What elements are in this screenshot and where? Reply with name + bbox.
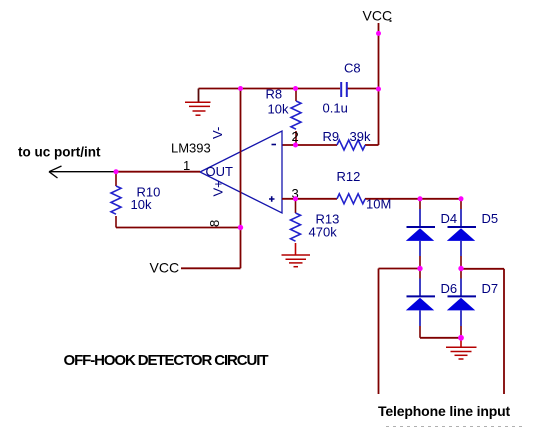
ground GND1 top-left bbox=[185, 102, 211, 115]
node mid / D5-D7 bbox=[458, 266, 463, 271]
svg-text:R9: R9 bbox=[323, 129, 340, 144]
svg-text:V-: V- bbox=[210, 127, 225, 139]
svg-text:10M: 10M bbox=[366, 197, 391, 212]
wire mid vertical bbox=[240, 89, 242, 269]
svg-text:R12: R12 bbox=[337, 169, 361, 184]
plus input mark bbox=[269, 196, 275, 202]
resistor R10 bbox=[115, 172, 117, 186]
svg-text:2: 2 bbox=[292, 129, 299, 144]
capacitor C8 bbox=[341, 82, 347, 97]
wire ground stub top-left bbox=[198, 89, 200, 103]
svg-text:to uc port/int: to uc port/int bbox=[18, 145, 101, 160]
resistor R13 bbox=[295, 199, 297, 213]
node top wire / VCC line bbox=[376, 87, 381, 92]
svg-text:D7: D7 bbox=[482, 281, 499, 296]
wire VCC vertical bbox=[378, 23, 380, 145]
faint dashed artifact bottom bbox=[386, 426, 524, 428]
node top wire / mid vertical bbox=[238, 86, 243, 91]
svg-text:D5: D5 bbox=[482, 211, 499, 226]
wire D6 to D7 bottom bbox=[420, 337, 461, 339]
node pin3 wire / D5 bbox=[459, 196, 464, 201]
svg-text:VCC: VCC bbox=[150, 260, 180, 276]
svg-text:VCC: VCC bbox=[363, 8, 393, 24]
node top wire / R8 top bbox=[293, 86, 298, 91]
wire telephone right vertical bbox=[503, 269, 505, 394]
minus input mark bbox=[272, 144, 277, 146]
svg-text:OUT: OUT bbox=[206, 164, 234, 179]
node mid / D4-D6 bbox=[417, 266, 422, 271]
svg-text:C8: C8 bbox=[344, 61, 361, 76]
svg-text:10k: 10k bbox=[131, 197, 152, 212]
diode D6 bbox=[419, 269, 421, 279]
node pin3 / R13 bbox=[293, 196, 298, 201]
wire bottom net R10 to mid vertical bbox=[116, 227, 241, 229]
svg-text:D4: D4 bbox=[441, 211, 458, 226]
arrow to uc port bbox=[49, 166, 115, 178]
svg-text:0.1u: 0.1u bbox=[323, 101, 348, 116]
wire top horizontal right of C8 bbox=[348, 88, 379, 90]
wire pin2 net bbox=[282, 144, 337, 146]
wire top horizontal left of C8 bbox=[199, 88, 341, 90]
svg-text:V+: V+ bbox=[211, 180, 226, 196]
node output / R10 bbox=[114, 169, 119, 174]
resistor R12 bbox=[337, 194, 365, 204]
wire VCC bottom stub bbox=[181, 267, 241, 269]
ground GND3 stub bbox=[460, 338, 462, 347]
svg-text:1: 1 bbox=[183, 158, 190, 173]
diode D5 bbox=[460, 199, 462, 209]
svg-text:8: 8 bbox=[207, 220, 222, 227]
wire telephone left vertical bbox=[378, 269, 380, 395]
node pin2 / R8 bbox=[293, 143, 298, 148]
diode D7 bbox=[460, 269, 462, 279]
wire right mid from D5 bbox=[461, 268, 504, 270]
ground GND3 bbox=[446, 347, 477, 359]
resistor R9 bbox=[337, 140, 365, 150]
svg-text:39k: 39k bbox=[350, 129, 371, 144]
node ground bottom bbox=[458, 335, 464, 341]
wire left mid to D4 bbox=[379, 268, 421, 270]
node pin3 wire / D4 bbox=[418, 196, 423, 201]
svg-text:LM393: LM393 bbox=[171, 141, 211, 156]
node VCC top bbox=[376, 31, 381, 36]
svg-text:470k: 470k bbox=[309, 225, 338, 240]
resistor R8 bbox=[295, 89, 297, 102]
wire output net bbox=[116, 171, 200, 173]
svg-text:D6: D6 bbox=[441, 281, 458, 296]
svg-text:Telephone line input: Telephone line input bbox=[378, 403, 511, 419]
svg-text:OFF-HOOK DETECTOR CIRCUIT: OFF-HOOK DETECTOR CIRCUIT bbox=[64, 352, 269, 369]
node bottom / mid vertical bbox=[238, 225, 243, 230]
wire pin3 net bbox=[282, 198, 337, 200]
diode D4 bbox=[419, 199, 421, 209]
op-amp U1 LM393 bbox=[200, 131, 282, 213]
svg-text:R8: R8 bbox=[266, 87, 283, 102]
ground GND2 under R13 bbox=[282, 255, 311, 267]
svg-text:10k: 10k bbox=[268, 102, 289, 117]
